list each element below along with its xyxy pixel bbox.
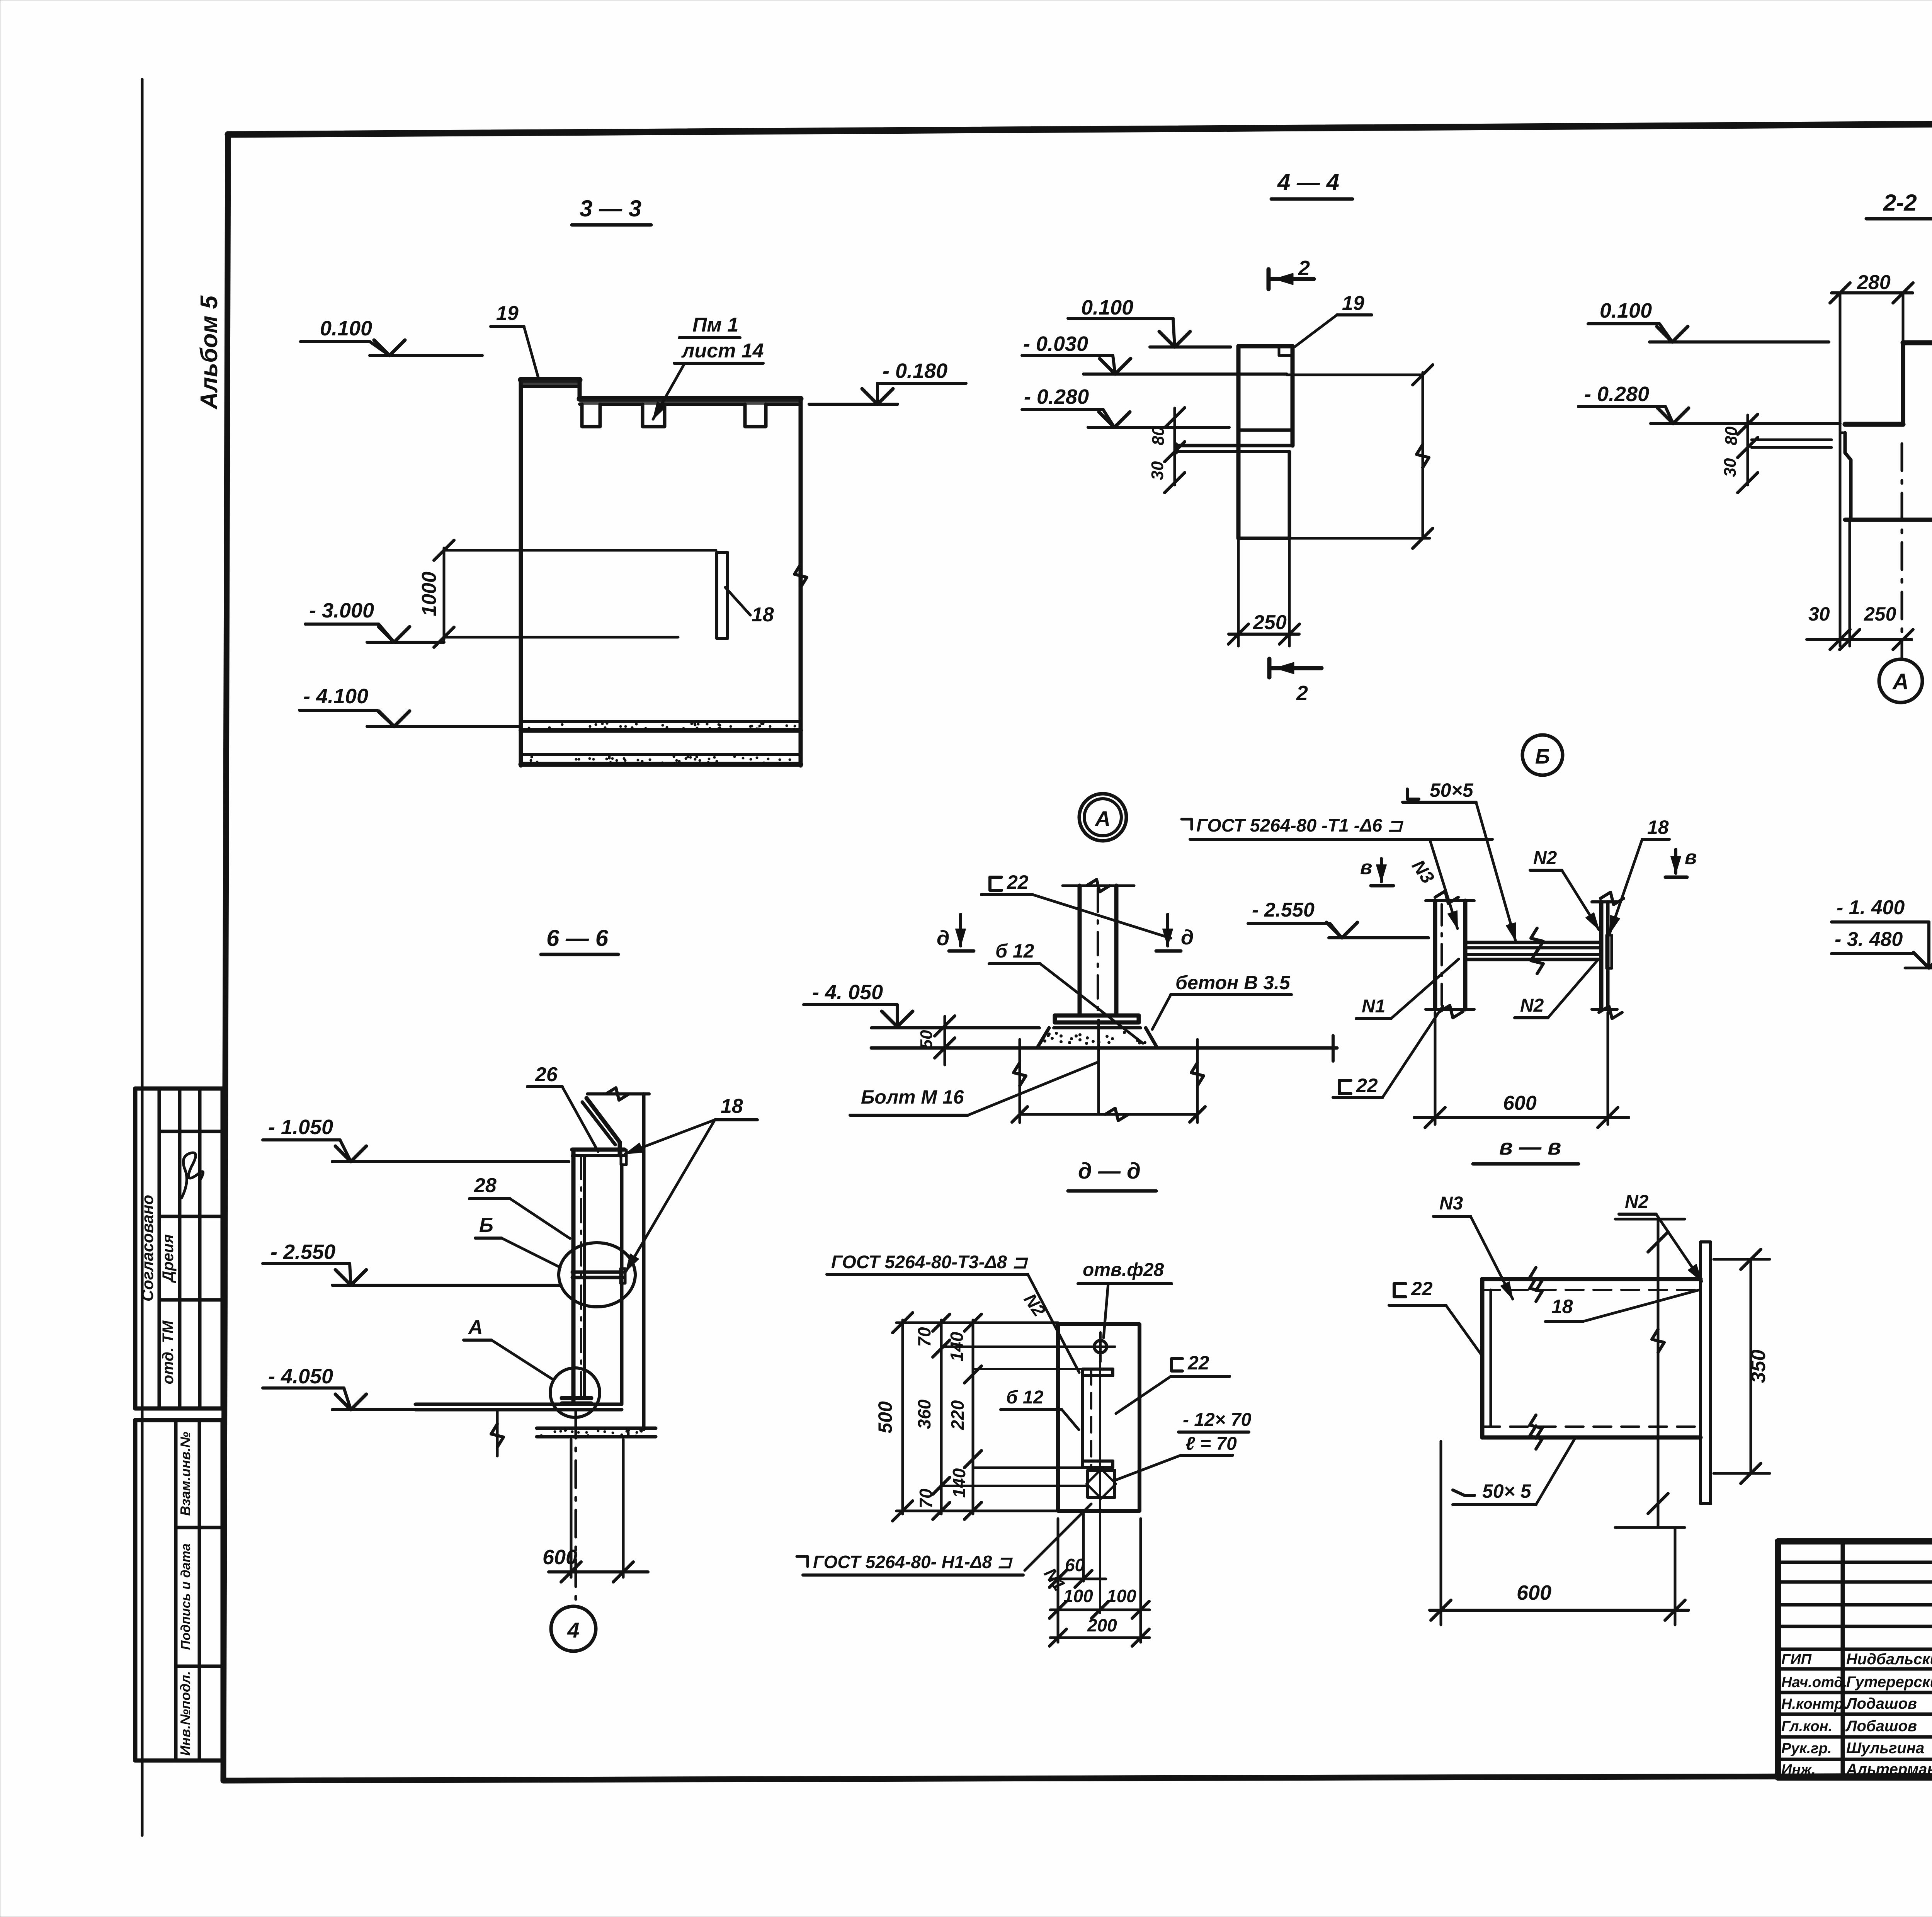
svg-text:100: 100 [1107,1586,1136,1606]
svg-text:600: 600 [1517,1581,1551,1604]
svg-text:28: 28 [474,1174,497,1197]
svg-text:22: 22 [1356,1075,1378,1096]
svg-text:д — д: д — д [1078,1158,1141,1184]
svg-text:50×5: 50×5 [1430,779,1474,801]
svg-text:- 4.050: - 4.050 [268,1365,333,1388]
svg-text:70: 70 [914,1327,934,1347]
svg-text:50× 5: 50× 5 [1482,1480,1532,1502]
svg-text:ГОСТ 5264-80- Н1-Δ8 ⊐: ГОСТ 5264-80- Н1-Δ8 ⊐ [813,1552,1013,1572]
svg-text:220: 220 [947,1400,968,1430]
svg-text:18: 18 [1647,816,1669,838]
svg-text:Нач.отд.: Нач.отд. [1781,1674,1847,1691]
svg-text:Инж.: Инж. [1781,1762,1816,1778]
svg-text:Альтерман: Альтерман [1846,1761,1932,1778]
svg-text:- 2.550: - 2.550 [270,1240,335,1264]
svg-text:бетон В 3.5: бетон В 3.5 [1175,972,1291,993]
svg-text:б 12: б 12 [1006,1387,1044,1408]
svg-text:ГОСТ 5264-80 -Т1 -Δ6 ⊐: ГОСТ 5264-80 -Т1 -Δ6 ⊐ [1196,815,1404,835]
svg-text:- 1. 400: - 1. 400 [1837,896,1905,919]
svg-text:Гутерерских: Гутерерских [1846,1674,1932,1691]
svg-text:- 1.050: - 1.050 [268,1116,333,1139]
svg-text:Гл.кон.: Гл.кон. [1781,1718,1832,1735]
svg-text:2: 2 [1296,682,1308,705]
svg-text:0.100: 0.100 [1600,299,1652,322]
svg-text:4 — 4: 4 — 4 [1277,169,1339,195]
svg-text:200: 200 [1087,1615,1117,1635]
svg-text:Инв.№подл.: Инв.№подл. [177,1671,193,1755]
svg-text:19: 19 [1342,292,1364,315]
svg-text:в — в: в — в [1499,1135,1561,1160]
svg-text:0.100: 0.100 [1081,296,1133,319]
svg-text:N2: N2 [1533,848,1557,868]
svg-text:60: 60 [1065,1555,1085,1575]
svg-text:26: 26 [535,1063,558,1086]
svg-text:- 0.280: - 0.280 [1584,383,1649,406]
svg-text:N2: N2 [1625,1192,1649,1212]
svg-text:Пм 1: Пм 1 [692,314,738,336]
svg-text:Согласовано: Согласовано [138,1195,156,1301]
svg-text:4: 4 [567,1618,579,1642]
svg-text:лист 14: лист 14 [681,340,764,362]
svg-text:350: 350 [1747,1350,1770,1383]
svg-text:- 12× 70: - 12× 70 [1183,1410,1252,1430]
svg-text:- 3.000: - 3.000 [309,599,374,622]
svg-text:30: 30 [1808,603,1830,625]
svg-text:- 0.180: - 0.180 [883,359,947,383]
svg-text:Подпись и дата: Подпись и дата [179,1543,193,1650]
svg-text:18: 18 [721,1095,743,1118]
svg-text:0.100: 0.100 [320,317,372,340]
svg-text:N2: N2 [1520,995,1544,1016]
svg-text:1000: 1000 [418,572,440,616]
svg-text:Б: Б [1535,745,1550,768]
svg-text:А: А [1094,806,1111,831]
svg-text:Дреия: Дреия [160,1234,177,1283]
svg-text:Рук.гр.: Рук.гр. [1781,1740,1832,1757]
svg-text:- 4. 050: - 4. 050 [812,981,883,1004]
svg-text:22: 22 [1007,871,1029,893]
svg-text:в: в [1685,846,1697,869]
svg-text:б 12: б 12 [995,940,1034,962]
svg-text:140: 140 [947,1332,967,1361]
svg-text:N3: N3 [1439,1193,1463,1214]
svg-text:Болт М 16: Болт М 16 [861,1086,964,1108]
svg-text:- 0.280: - 0.280 [1024,385,1089,408]
svg-text:600: 600 [1503,1092,1537,1114]
svg-text:30: 30 [1721,458,1740,477]
svg-text:Лодашов: Лодашов [1845,1695,1917,1712]
svg-text:280: 280 [1857,271,1891,294]
svg-text:140: 140 [949,1468,969,1498]
svg-text:Шульгина: Шульгина [1846,1740,1924,1757]
svg-text:- 3. 480: - 3. 480 [1835,928,1903,951]
svg-text:Нидбальскии: Нидбальскии [1846,1651,1932,1668]
svg-text:18: 18 [752,604,774,626]
svg-text:360: 360 [914,1399,934,1429]
svg-text:50: 50 [917,1030,936,1049]
svg-text:100: 100 [1063,1586,1093,1606]
svg-text:Лобашов: Лобашов [1845,1718,1917,1735]
svg-text:80: 80 [1149,426,1168,445]
svg-text:д: д [937,927,949,950]
svg-text:500: 500 [874,1401,896,1434]
svg-text:19: 19 [496,302,519,325]
svg-text:30: 30 [1148,461,1167,480]
svg-text:- 2.550: - 2.550 [1252,899,1315,921]
svg-text:250: 250 [1864,603,1896,625]
svg-text:600: 600 [543,1546,577,1569]
svg-text:- 4.100: - 4.100 [303,685,368,708]
svg-text:22: 22 [1187,1352,1209,1374]
svg-text:А: А [468,1316,483,1339]
svg-text:3 — 3: 3 — 3 [580,196,641,221]
svg-text:Б: Б [479,1214,493,1237]
svg-text:в: в [1360,856,1372,879]
svg-text:д: д [1181,926,1194,949]
svg-text:отд. ТМ: отд. ТМ [160,1320,177,1384]
svg-text:2: 2 [1298,257,1310,280]
svg-text:80: 80 [1722,426,1741,445]
svg-text:6 — 6: 6 — 6 [546,925,609,951]
svg-text:18: 18 [1551,1296,1573,1317]
svg-text:250: 250 [1253,611,1287,634]
svg-text:отв.ф28: отв.ф28 [1083,1260,1164,1280]
svg-text:70: 70 [916,1488,936,1509]
svg-text:N1: N1 [1362,996,1385,1017]
svg-text:Взам.инв.№: Взам.инв.№ [177,1432,193,1516]
svg-text:2-2: 2-2 [1883,190,1917,216]
svg-text:А: А [1892,669,1909,694]
svg-text:Н.контр.: Н.контр. [1781,1696,1847,1712]
svg-text:22: 22 [1411,1278,1433,1300]
svg-text:Альбом 5: Альбом 5 [196,295,223,410]
svg-text:- 0.030: - 0.030 [1023,332,1088,356]
svg-text:ГИП: ГИП [1781,1652,1812,1668]
svg-text:ℓ = 70: ℓ = 70 [1185,1434,1237,1454]
svg-text:ГОСТ 5264-80-Т3-Δ8 ⊐: ГОСТ 5264-80-Т3-Δ8 ⊐ [831,1252,1029,1272]
